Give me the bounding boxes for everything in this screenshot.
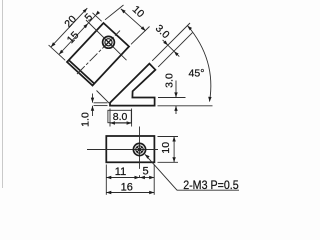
ext line W corner <box>49 45 66 60</box>
bottom hole vertical centerline <box>139 127 141 169</box>
svg-text:1.0: 1.0 <box>80 112 92 127</box>
svg-text:3.0: 3.0 <box>153 22 172 41</box>
dim line 15 and 5 <box>59 15 96 55</box>
svg-text:10: 10 <box>130 3 147 20</box>
svg-text:10: 10 <box>160 142 172 154</box>
ext line bottom left <box>105 165 107 195</box>
ext line bottom right <box>153 165 155 195</box>
svg-text:20: 20 <box>62 13 79 30</box>
aux view cross centerline / extension <box>86 20 127 60</box>
leader line <box>145 154 177 190</box>
bottom hole horizontal centerline <box>87 149 158 151</box>
ext line arm inner <box>158 33 192 67</box>
svg-text:15: 15 <box>65 29 82 46</box>
ext line N corner <box>93 13 102 21</box>
svg-text:11: 11 <box>115 166 126 178</box>
bottom view outline <box>106 136 154 162</box>
bottom hole <box>133 143 145 155</box>
dim line 8.0 <box>110 122 132 124</box>
svg-text:3.0: 3.0 <box>164 73 176 88</box>
aux view bend edge double line <box>69 60 95 84</box>
aux view long centerline <box>77 31 120 74</box>
dim line 3.0 arm <box>163 40 180 57</box>
aux view outline <box>67 23 129 86</box>
svg-text:2-M3 P=0.5: 2-M3 P=0.5 <box>183 178 239 192</box>
svg-text:5: 5 <box>143 166 149 178</box>
dim line 10 aux <box>121 9 146 31</box>
dim line 16 <box>106 192 154 194</box>
dim line 10 right <box>173 137 175 163</box>
ext lines 10 right <box>158 136 179 138</box>
ext line arm outer <box>152 23 190 61</box>
scan left edge line <box>2 0 4 188</box>
ext line N corner NE <box>105 5 124 20</box>
dim 3.0 vertical <box>175 81 177 98</box>
ext lines 1.0 <box>94 102 108 104</box>
svg-text:8.0: 8.0 <box>113 111 128 123</box>
dim 1.0 <box>92 94 94 103</box>
ext line E corner NE <box>131 27 150 45</box>
svg-text:45°: 45° <box>189 68 205 80</box>
foot top ext right <box>158 97 186 99</box>
box 8.0 <box>108 110 131 122</box>
45 degree arc <box>188 26 211 102</box>
dim line 5 <box>140 177 155 179</box>
dim line 11 <box>106 177 139 179</box>
projection line aux to side <box>97 91 110 104</box>
baseline ext <box>158 105 213 107</box>
svg-text:16: 16 <box>121 181 133 193</box>
ext lines 8.0 <box>109 109 111 127</box>
side view outline <box>110 64 155 106</box>
aux view hole <box>103 36 115 48</box>
dim line 20 <box>51 8 88 47</box>
